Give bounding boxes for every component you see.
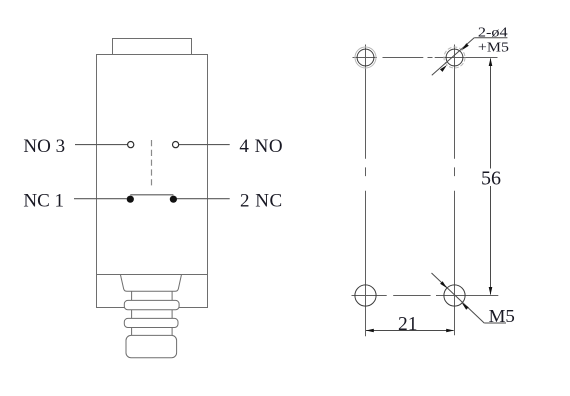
svg-text:M5: M5 <box>489 306 515 326</box>
svg-text:21: 21 <box>398 313 418 335</box>
svg-text:+M5: +M5 <box>478 40 509 55</box>
svg-text:4 NO: 4 NO <box>239 136 283 157</box>
svg-text:NO 3: NO 3 <box>23 136 65 157</box>
svg-text:56: 56 <box>481 167 501 189</box>
svg-text:2 NC: 2 NC <box>240 190 283 211</box>
svg-text:2-ø4: 2-ø4 <box>478 26 508 41</box>
svg-text:NC 1: NC 1 <box>23 190 64 211</box>
